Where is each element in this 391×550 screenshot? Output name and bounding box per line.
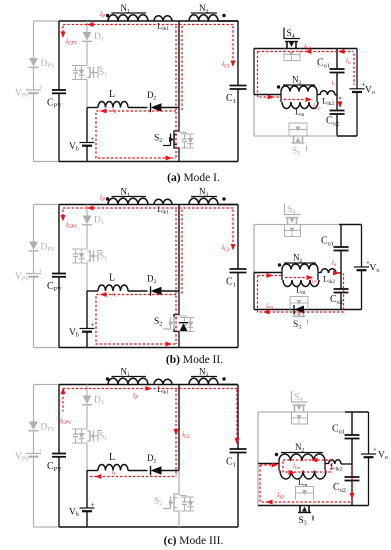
- svg-text:D2: D2: [147, 90, 157, 102]
- diode DPV: [29, 58, 38, 67]
- wire: red top current path: [63, 24, 233, 26]
- diode D1: [86, 21, 88, 32]
- wire: right top bus: [254, 48, 357, 50]
- svg-text:N2: N2: [295, 442, 305, 454]
- svg-text:N3: N3: [199, 187, 209, 199]
- svg-text:L: L: [109, 273, 115, 284]
- body diode of S2 conducting: [180, 324, 188, 332]
- svg-text:iP: iP: [133, 391, 138, 401]
- svg-text:iL: iL: [112, 107, 117, 114]
- S4 body diode box: [292, 412, 308, 424]
- svg-text:Co1: Co1: [332, 424, 345, 436]
- red: iS4 top loop: [258, 51, 354, 53]
- wire: bottom grey stub: [34, 526, 60, 528]
- node: Vpv branch vertical: [33, 205, 35, 242]
- svg-text:C1: C1: [226, 457, 236, 469]
- svg-text:S1: S1: [99, 68, 107, 79]
- svg-text:iCPV: iCPV: [60, 416, 72, 426]
- mosfet S1: [72, 428, 85, 430]
- capacitor Co1: [351, 412, 353, 435]
- svg-text:iS4: iS4: [304, 42, 311, 52]
- red iCPV up: [62, 393, 64, 412]
- svg-text:iP: iP: [100, 9, 105, 19]
- svg-text:S3: S3: [292, 147, 300, 158]
- wire: right circuit left leg: [253, 225, 255, 273]
- wire: right bottom bus: [254, 135, 337, 137]
- winding N1: [108, 198, 148, 204]
- svg-text:CPV: CPV: [47, 98, 62, 110]
- svg-text:iLm: iLm: [293, 462, 300, 470]
- red: iLm: [284, 99, 308, 101]
- red loop through S3 body diode: [258, 275, 283, 277]
- svg-text:iC1: iC1: [222, 243, 230, 253]
- red iCPV stub: [62, 210, 64, 217]
- svg-text:N1: N1: [121, 187, 131, 199]
- inductor Llk2: [329, 460, 342, 464]
- svg-text:Vb: Vb: [69, 142, 79, 153]
- svg-text:iLm: iLm: [310, 275, 317, 283]
- mosfet S4: [285, 204, 301, 215]
- source Vb: [86, 108, 88, 143]
- svg-text:DPV: DPV: [41, 59, 56, 70]
- red iC1 stub: [232, 26, 234, 62]
- red: into Co2: [339, 97, 341, 104]
- inductor Llk2: [320, 91, 335, 95]
- inductor Llk1: [154, 16, 172, 21]
- diode D2: [151, 103, 162, 111]
- body diode of S3 conducting: [294, 306, 304, 314]
- wire: top grey stub (Vpv to Cpv): [34, 20, 60, 22]
- svg-text:CPV: CPV: [47, 461, 62, 473]
- svg-text:S2: S2: [154, 317, 162, 328]
- svg-text:Llk2: Llk2: [322, 96, 334, 108]
- svg-text:is: is: [332, 80, 336, 87]
- svg-text:iCPV: iCPV: [66, 36, 78, 46]
- svg-text:iLm: iLm: [313, 102, 320, 110]
- source Vo: [361, 225, 363, 268]
- wire: bottom grey stub: [34, 347, 60, 349]
- svg-text:Llk1: Llk1: [157, 204, 169, 216]
- node: Vpv branch vertical: [33, 21, 35, 58]
- source VPV: [26, 273, 41, 275]
- source Vo: [368, 412, 370, 454]
- wire: red top current path: [63, 207, 233, 209]
- source VPV: [26, 89, 41, 91]
- svg-text:+: +: [366, 259, 370, 267]
- capacitor Co1: [336, 49, 338, 70]
- svg-text:+: +: [362, 80, 366, 88]
- red iC1 vertical: [175, 390, 177, 477]
- svg-text:+: +: [91, 321, 95, 329]
- svg-text:iC1: iC1: [182, 430, 190, 440]
- inductor Llk1: [154, 379, 172, 384]
- wire: bottom grey stub: [34, 161, 60, 163]
- mosfet S2: [178, 205, 180, 292]
- red rect around N2: [283, 460, 331, 472]
- svg-text:iS3: iS3: [277, 490, 284, 500]
- inductor L: [87, 107, 98, 109]
- svg-text:S3: S3: [293, 320, 301, 331]
- winding N2 and Lm: [254, 272, 282, 274]
- svg-text:Co1: Co1: [321, 236, 334, 248]
- wire: right top bus: [258, 411, 345, 413]
- svg-text:io: io: [346, 56, 351, 66]
- svg-text:S4: S4: [294, 393, 302, 404]
- capacitor CPV: [58, 205, 60, 274]
- wire: bottom bus: [59, 347, 238, 349]
- red iCPV stub: [62, 26, 64, 33]
- wire: right circuit left leg: [253, 49, 255, 95]
- winding N3: [189, 198, 218, 204]
- winding N3: [189, 15, 218, 21]
- mosfet S4: [284, 28, 300, 39]
- capacitor Co2: [330, 110, 345, 112]
- svg-text:+: +: [39, 447, 43, 455]
- svg-text:iL: iL: [112, 469, 117, 476]
- S4 body diode box: [285, 225, 301, 237]
- svg-text:S1: S1: [99, 432, 107, 443]
- wire: right bottom bus: [254, 309, 362, 311]
- wire: top bus: [59, 384, 238, 386]
- mosfet S3: [289, 123, 307, 136]
- svg-text:+: +: [91, 135, 95, 143]
- svg-text:S2: S2: [154, 497, 162, 508]
- inductor L: [87, 470, 98, 472]
- inductor Llk2: [321, 269, 336, 273]
- wire: right bottom bus: [258, 505, 369, 507]
- winding N1: [108, 378, 148, 384]
- wire: red top current path mode III: [63, 388, 237, 390]
- svg-text:Vb: Vb: [69, 328, 79, 339]
- svg-text:DPV: DPV: [41, 243, 56, 254]
- capacitor Co2: [334, 288, 349, 290]
- svg-text:Vo: Vo: [378, 451, 388, 462]
- diode D1: [86, 385, 88, 396]
- source Vo: [356, 49, 358, 89]
- source VPV: [26, 453, 41, 455]
- svg-text:Vo: Vo: [365, 85, 375, 96]
- diode DPV: [29, 242, 38, 251]
- mosfet S4: [292, 391, 308, 402]
- svg-text:+: +: [39, 267, 43, 275]
- svg-text:S3: S3: [299, 516, 307, 527]
- capacitor CPV: [58, 21, 60, 90]
- svg-text:S1: S1: [99, 252, 107, 263]
- red: iLm: [285, 277, 309, 279]
- winding N2 and Lm: [258, 463, 279, 465]
- svg-text:CPV: CPV: [47, 281, 62, 293]
- svg-text:N3: N3: [199, 367, 209, 379]
- svg-text:S2: S2: [154, 134, 162, 145]
- mosfet S1: [72, 248, 85, 250]
- capacitor C1: [237, 21, 239, 86]
- svg-text:S4: S4: [287, 205, 295, 216]
- svg-text:L: L: [109, 452, 115, 463]
- red: i o: [353, 54, 355, 85]
- mosfet S1: [72, 65, 85, 67]
- diode D2: [151, 466, 162, 474]
- inductor L: [87, 290, 98, 292]
- svg-text:C1: C1: [226, 277, 236, 289]
- node: Vpv branch vertical: [33, 385, 35, 422]
- wire: bottom bus: [59, 526, 238, 528]
- red vertical pair at S2: [175, 26, 177, 158]
- winding N2 and Lm: [254, 94, 281, 96]
- svg-text:Co1: Co1: [317, 58, 330, 70]
- svg-text:C1: C1: [226, 93, 236, 105]
- capacitor C1: [237, 205, 239, 270]
- svg-text:S4: S4: [287, 29, 295, 40]
- svg-text:D1: D1: [94, 396, 104, 407]
- svg-text:(b) Mode II.: (b) Mode II.: [166, 354, 223, 366]
- svg-text:(c) Mode III.: (c) Mode III.: [164, 535, 224, 547]
- svg-text:iS3: iS3: [266, 301, 273, 311]
- svg-text:+: +: [373, 446, 377, 454]
- svg-text:iC1: iC1: [222, 59, 230, 69]
- diode D2: [151, 287, 162, 295]
- red loop mode III right: [260, 464, 277, 466]
- svg-text:D2: D2: [147, 274, 157, 286]
- svg-text:N1: N1: [121, 3, 131, 15]
- svg-text:L: L: [109, 89, 115, 100]
- mosfet S3: [296, 487, 314, 500]
- red return under D2 wire: [90, 476, 176, 478]
- wire: top grey stub (Vpv to Cpv): [34, 384, 60, 386]
- capacitor C1: [237, 385, 239, 450]
- red inner loop: [96, 111, 176, 158]
- red vertical pair at S2: [175, 210, 177, 345]
- source Vb: [86, 471, 88, 509]
- winding N1: [108, 15, 148, 21]
- svg-text:N2: N2: [292, 75, 302, 87]
- winding N3: [189, 378, 218, 384]
- svg-text:Co2: Co2: [333, 482, 346, 494]
- wire: top bus: [59, 20, 238, 22]
- red inner loop: [96, 295, 176, 345]
- svg-text:Vb: Vb: [69, 508, 79, 519]
- wire: bottom bus: [59, 161, 238, 163]
- svg-text:iCPV: iCPV: [66, 220, 78, 230]
- mosfet S2: [178, 385, 180, 471]
- svg-text:+: +: [39, 83, 43, 91]
- wire: top grey stub (Vpv to Cpv): [34, 204, 60, 206]
- svg-text:D1: D1: [94, 32, 104, 43]
- mosfet S3: [290, 297, 308, 310]
- red iC1 stub: [232, 210, 234, 246]
- S4 body diode box: [284, 49, 300, 61]
- wire: right circuit left leg: [257, 412, 259, 464]
- svg-text:iL: iL: [112, 291, 117, 298]
- source Vb: [86, 291, 88, 329]
- inductor Llk1: [154, 199, 172, 204]
- svg-text:+: +: [91, 501, 95, 509]
- svg-text:D2: D2: [147, 453, 157, 465]
- svg-text:Llk1: Llk1: [157, 384, 169, 396]
- capacitor Co1: [340, 225, 342, 248]
- svg-text:id: id: [332, 259, 337, 267]
- svg-text:N2: N2: [293, 253, 303, 265]
- capacitor CPV: [58, 385, 60, 454]
- mosfet S2: [178, 21, 180, 108]
- svg-text:DPV: DPV: [41, 423, 56, 434]
- capacitor Co2: [345, 476, 360, 478]
- svg-text:Llk1: Llk1: [157, 21, 169, 33]
- svg-text:D1: D1: [94, 216, 104, 227]
- wire: right top bus: [254, 224, 339, 226]
- diode DPV: [29, 422, 38, 431]
- svg-text:N1: N1: [121, 367, 131, 379]
- diode D1: [86, 205, 88, 216]
- svg-text:Vo: Vo: [370, 264, 380, 275]
- wire: top bus: [59, 204, 238, 206]
- svg-text:(a) Mode I.: (a) Mode I.: [167, 172, 220, 184]
- svg-text:N3: N3: [199, 3, 209, 15]
- svg-text:iP: iP: [100, 193, 105, 203]
